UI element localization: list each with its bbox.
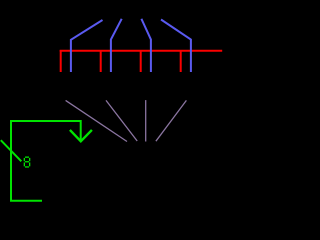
wire: red stub 2 [100,50,102,72]
wire: red stub 1 [60,50,62,72]
wire: purple ray 3 [145,100,147,141]
wire: red feed bus (horizontal) [60,50,223,52]
arrowhead on green bus [70,130,92,141]
value label 8 (bus width) [24,157,29,167]
wire: blue drop 1 [71,20,103,72]
wire: blue drop 2 [111,19,122,72]
bus width slash [1,140,22,161]
wire: purple ray 4 [156,100,187,141]
wire: purple ray 1 [66,100,127,141]
wire: red stub 3 [140,50,142,72]
wire: purple ray 2 [106,100,137,141]
wire: red stub 4 [180,50,182,72]
wire: green bus path [11,121,81,201]
wire: blue drop 4 [161,20,191,73]
wire: blue drop 3 [141,19,151,72]
